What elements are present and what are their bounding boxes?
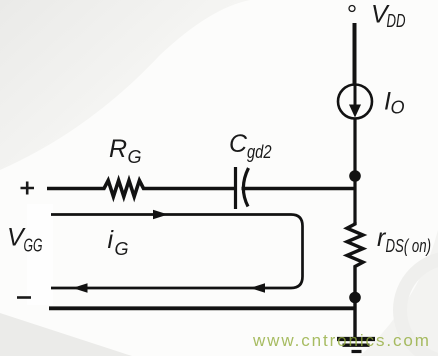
label r_DS(on) [377,224,431,256]
node A (junction dot) [349,170,361,182]
label R_G [109,135,142,167]
current loop i_G [51,210,303,293]
svg-text:DS( on): DS( on) [386,236,432,256]
terminal V_DD (open circle) [349,6,355,12]
svg-text:O: O [391,98,405,118]
minus terminal [17,296,31,299]
watermark www.cntronics.com [252,331,431,350]
svg-text:gd2: gd2 [247,142,272,162]
wire C_gd2 to node A column [242,187,357,190]
wire plus terminal to R_G [47,187,100,190]
svg-text:G: G [128,147,142,167]
label I_O [384,88,405,118]
resistor r_DS(on) [347,222,363,292]
capacitor C_gd2 [236,167,249,209]
wire bottom return (minus side to ground) [49,306,356,310]
ground [337,339,375,352]
label V_DD [371,1,406,32]
current source I_O [338,85,372,119]
svg-text:G: G [115,239,129,259]
wire R_G to C_gd2 [146,187,234,190]
wire node A down to r_DS(on) [353,176,356,222]
svg-text:DD: DD [387,11,406,31]
wire V_DD to current source [353,23,357,85]
label V_GG [7,224,43,256]
plus terminal [21,182,35,195]
svg-text:C: C [229,130,248,158]
label C_gd2 [229,130,272,162]
svg-text:R: R [109,135,127,163]
wire node B to ground [353,298,356,338]
svg-text:GG: GG [24,236,43,256]
svg-text:www.cntronics.com: www.cntronics.com [252,331,431,350]
label i_G [108,226,129,259]
wire current source to node A [353,118,356,172]
node B (junction dot at ground) [349,292,361,304]
resistor R_G [100,181,146,197]
